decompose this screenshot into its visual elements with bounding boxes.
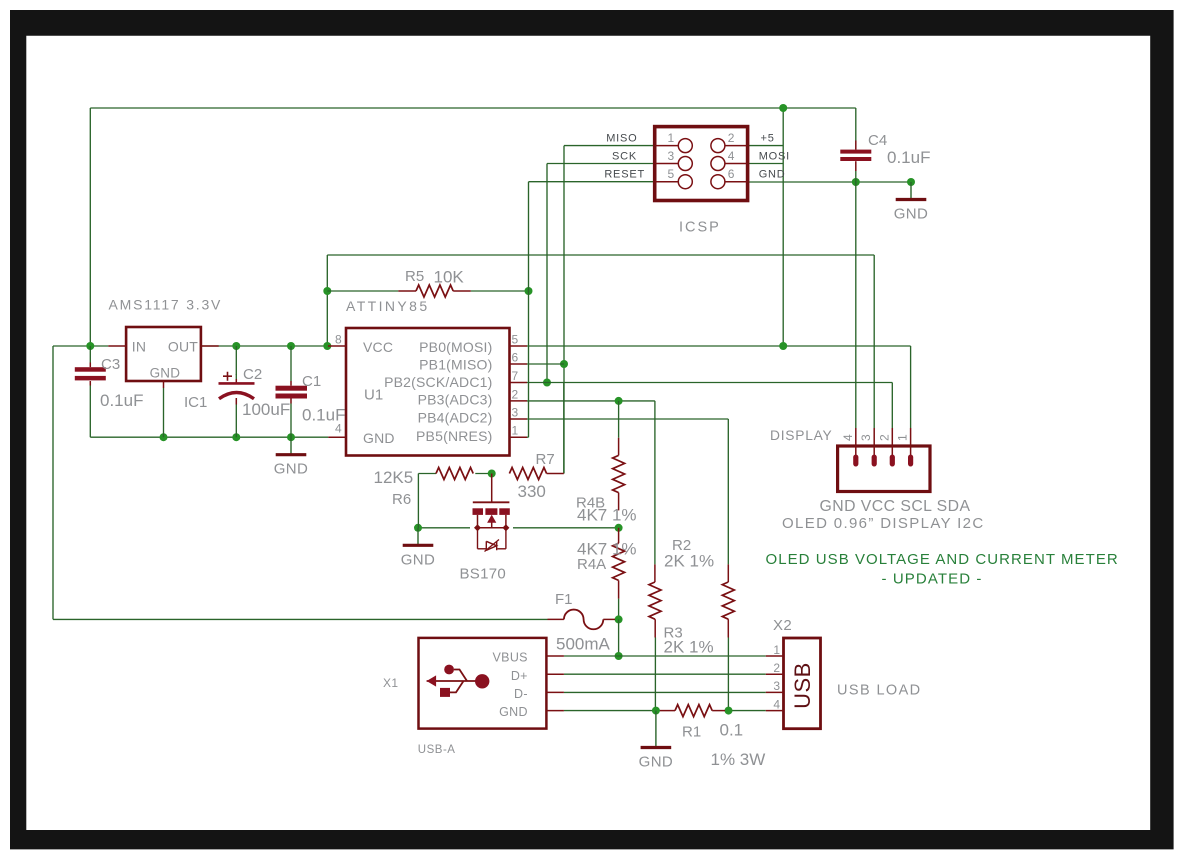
svg-text:MOSI: MOSI: [759, 150, 790, 162]
junction R4A/R4B/drain: [615, 524, 623, 532]
X1 USB logo: [427, 665, 490, 697]
IC1 pin IN stub: [108, 345, 126, 347]
junction C2 top: [232, 342, 240, 350]
connector X2 USB box: [784, 638, 821, 729]
junction PB3/R4B: [615, 397, 623, 405]
svg-text:12K5: 12K5: [374, 468, 414, 487]
svg-text:GND: GND: [499, 705, 528, 719]
junction SCK/PB2: [543, 379, 551, 387]
wire +5V top horizontal: [90, 107, 856, 109]
svg-text:USB-A: USB-A: [418, 744, 456, 756]
svg-text:100uF: 100uF: [242, 400, 290, 419]
svg-text:GND: GND: [639, 754, 674, 771]
junction fuse/R4A: [615, 615, 623, 623]
svg-text:1% 3W: 1% 3W: [711, 750, 766, 769]
svg-text:GND: GND: [274, 461, 309, 478]
svg-text:R1: R1: [682, 724, 701, 741]
svg-text:PB4(ADC2): PB4(ADC2): [418, 410, 493, 426]
svg-text:D+: D+: [511, 669, 528, 683]
svg-text:USB: USB: [790, 662, 815, 709]
wire BS170 drain row: [513, 527, 619, 529]
resistor R2: [722, 564, 734, 637]
svg-text:MISO: MISO: [606, 132, 637, 144]
wire IN row: [53, 345, 108, 347]
svg-text:1: 1: [896, 434, 910, 441]
wire 3V3 riser left: [326, 255, 328, 346]
svg-text:C2: C2: [243, 366, 262, 383]
svg-text:2: 2: [877, 434, 891, 441]
svg-text:1: 1: [773, 643, 780, 657]
wire PB2 row to SCL: [527, 382, 892, 384]
svg-text:IC1: IC1: [184, 394, 207, 411]
svg-text:6: 6: [728, 167, 735, 181]
svg-text:F1: F1: [555, 591, 573, 608]
svg-text:7: 7: [512, 369, 519, 383]
wire R3 column: [654, 401, 656, 565]
X1 pin stubs: [546, 656, 564, 711]
svg-text:0.1uF: 0.1uF: [100, 391, 143, 410]
resistor R3: [649, 564, 661, 637]
wire PB4 row: [527, 418, 728, 420]
capacitor C1: [276, 346, 308, 437]
svg-text:4K7 1%: 4K7 1%: [577, 506, 637, 525]
wire R6R7 gate row left: [418, 473, 436, 475]
svg-text:8: 8: [335, 333, 342, 347]
wire SCK row: [547, 163, 655, 165]
svg-text:R4A: R4A: [577, 556, 606, 573]
svg-text:1: 1: [668, 131, 675, 145]
svg-text:GND: GND: [150, 366, 181, 381]
DISPLAY pin pads: [853, 428, 913, 467]
wire R2 column: [727, 419, 729, 564]
svg-text:6: 6: [512, 351, 519, 365]
wire PB3 row: [527, 400, 655, 402]
svg-text:C4: C4: [868, 132, 887, 149]
wire R4A bottom: [618, 599, 620, 620]
wire SDA vertical to display pin1: [910, 346, 912, 428]
svg-text:PB3(ADC3): PB3(ADC3): [418, 392, 493, 408]
svg-text:330: 330: [518, 482, 546, 501]
svg-text:X1: X1: [383, 676, 398, 690]
junction PB0 riser: [779, 342, 787, 350]
junction IN/C3: [86, 342, 94, 350]
U1 pin4 stub: [328, 436, 346, 438]
junction 3V3/R5: [323, 287, 331, 295]
wire VCC out row: [201, 345, 328, 347]
svg-text:GND VCC SCL SDA: GND VCC SCL SDA: [820, 498, 971, 515]
svg-text:4: 4: [728, 149, 735, 163]
fuse F1: [548, 610, 616, 630]
U1 pin numbers right: [512, 333, 519, 438]
svg-text:PB0(MOSI): PB0(MOSI): [419, 339, 492, 355]
svg-text:1: 1: [512, 424, 519, 438]
wire R7 right riser: [563, 383, 565, 474]
wire fuse node to VBUS: [618, 619, 620, 656]
U1 pin8 stub: [328, 345, 346, 347]
wire PB0 row to SDA: [527, 345, 911, 347]
junction VBUS row: [615, 652, 623, 660]
svg-text:PB1(MISO): PB1(MISO): [419, 357, 492, 373]
svg-text:RESET: RESET: [604, 168, 645, 180]
IC1 pin OUT stub: [201, 345, 219, 347]
transistor Q1 BS170: [473, 474, 510, 552]
svg-text:OLED 0.96” DISPLAY I2C: OLED 0.96” DISPLAY I2C: [782, 515, 985, 532]
wire VBUS left loop vertical: [52, 346, 54, 619]
wire SCK vertical: [546, 164, 548, 383]
ground under R1: [639, 711, 674, 771]
svg-text:+5: +5: [761, 132, 775, 144]
svg-text:5: 5: [668, 167, 675, 181]
junction gate node: [488, 470, 496, 478]
svg-text:C3: C3: [101, 356, 120, 373]
svg-text:3: 3: [668, 149, 675, 163]
junction GND symbol right: [907, 178, 915, 186]
svg-text:500mA: 500mA: [556, 634, 611, 653]
junction C1 top: [287, 342, 295, 350]
svg-text:4: 4: [773, 697, 780, 711]
wire 3V3 vertical to display pin3: [873, 255, 875, 428]
svg-text:USB LOAD: USB LOAD: [837, 683, 922, 699]
svg-text:D-: D-: [514, 687, 528, 701]
ground under C1: [274, 437, 309, 478]
svg-text:0.1uF: 0.1uF: [887, 148, 930, 167]
wire D+ row: [564, 673, 766, 675]
wire +5 stub ICSP: [748, 145, 784, 147]
junction shunt left: [652, 707, 660, 715]
wire R6 left riser: [417, 474, 419, 528]
svg-text:GND: GND: [759, 168, 786, 180]
junction C2 bottom: [232, 433, 240, 441]
wire GND row bottom left: [564, 710, 660, 712]
svg-text:OUT: OUT: [168, 338, 198, 354]
svg-text:- UPDATED -: - UPDATED -: [882, 571, 983, 588]
svg-text:SCK: SCK: [612, 150, 637, 162]
wire MISO row: [564, 145, 655, 147]
svg-text:4: 4: [335, 422, 342, 436]
voltage regulator IC1 AMS1117 box: [126, 327, 201, 381]
junction BS170 gnd: [414, 524, 422, 532]
svg-text:ICSP: ICSP: [679, 220, 721, 236]
wire GND row bottom right: [725, 710, 766, 712]
wire PB1 row: [527, 363, 564, 365]
U1 right pin stubs: [510, 346, 528, 437]
svg-text:GND: GND: [363, 430, 395, 446]
junction VCC pin8: [323, 342, 331, 350]
svg-text:X2: X2: [773, 617, 792, 634]
svg-text:2: 2: [512, 387, 519, 401]
svg-text:10K: 10K: [434, 267, 465, 286]
capacitor C2 polarized: [219, 346, 255, 437]
svg-text:U1: U1: [364, 387, 383, 404]
svg-text:C1: C1: [302, 373, 321, 390]
wire +5V left vertical: [89, 108, 91, 346]
svg-text:OLED USB VOLTAGE AND CURRENT M: OLED USB VOLTAGE AND CURRENT METER: [766, 551, 1119, 568]
header ICSP box: [655, 127, 748, 201]
resistor R6: [436, 468, 473, 480]
ground under R6: [401, 528, 436, 569]
wire RESET vertical: [528, 182, 530, 438]
junction R5/RESET: [525, 287, 533, 295]
wire R7 to riser: [547, 473, 564, 475]
svg-text:DISPLAY: DISPLAY: [770, 428, 833, 443]
svg-text:2: 2: [773, 661, 780, 675]
wire VBUS left loop horizontal to fuse: [53, 618, 548, 620]
junction C1 bottom: [287, 433, 295, 441]
X2 pin stubs: [766, 656, 784, 711]
connector DISPLAY box: [838, 446, 930, 492]
wire BS170 source row: [418, 527, 470, 529]
microcontroller U1 ATTINY85 box: [346, 328, 510, 456]
svg-text:AMS1117 3.3V: AMS1117 3.3V: [109, 297, 223, 313]
wire +5V ICSP riser: [782, 108, 784, 346]
resistor R4B: [613, 438, 625, 511]
resistor R1: [660, 705, 725, 717]
capacitor C4: [840, 108, 871, 182]
wire VBUS row X1 to X2: [564, 655, 766, 657]
junction MISO/PB1: [560, 360, 568, 368]
svg-text:5: 5: [512, 333, 519, 347]
resistor R7: [509, 468, 546, 480]
svg-text:0.1: 0.1: [720, 721, 744, 740]
junction +5V top: [779, 104, 787, 112]
svg-text:3: 3: [773, 679, 780, 693]
svg-text:3: 3: [512, 406, 519, 420]
resistor R5: [398, 285, 471, 297]
junction shunt right: [725, 707, 733, 715]
wire 3V3 distribution row: [327, 254, 874, 256]
wire GND row right: [748, 181, 911, 183]
svg-text:R5: R5: [405, 268, 424, 285]
capacitor C3: [75, 346, 106, 437]
wire D- row: [564, 691, 766, 693]
svg-text:PB5(NRES): PB5(NRES): [416, 428, 492, 444]
svg-text:VBUS: VBUS: [493, 650, 528, 664]
svg-text:2K 1%: 2K 1%: [664, 637, 714, 656]
IC1 pin GND stub: [163, 381, 165, 388]
wire MISO vertical: [563, 146, 565, 474]
wire PB5 stub: [527, 436, 529, 438]
wire GND vertical to display pin4: [855, 182, 857, 428]
svg-text:IN: IN: [132, 338, 146, 354]
svg-text:GND: GND: [894, 206, 929, 223]
wire R4 column upper: [618, 401, 620, 438]
resistor R4A: [613, 528, 625, 599]
wire RESET row: [529, 181, 656, 183]
svg-text:VCC: VCC: [363, 339, 393, 355]
svg-text:ATTINY85: ATTINY85: [346, 298, 430, 314]
ICSP pin circles: [655, 139, 748, 189]
wire R5 row: [327, 290, 398, 292]
wire GND rail: [90, 436, 328, 438]
wire MOSI stub ICSP: [748, 163, 784, 165]
wire gate node row: [475, 473, 491, 475]
svg-text:R7: R7: [536, 451, 555, 468]
svg-text:BS170: BS170: [460, 565, 507, 582]
junction AMS GND: [160, 433, 168, 441]
wire SCL vertical to display pin2: [891, 383, 893, 429]
svg-text:2K 1%: 2K 1%: [664, 551, 714, 570]
svg-text:PB2(SCK/ADC1): PB2(SCK/ADC1): [384, 374, 492, 390]
svg-text:4: 4: [841, 434, 855, 441]
svg-text:2: 2: [728, 131, 735, 145]
svg-text:GND: GND: [401, 551, 436, 568]
svg-text:R6: R6: [392, 491, 411, 508]
connector X1 USB-A box: [419, 638, 547, 729]
junction C4 bottom: [852, 178, 860, 186]
svg-text:3: 3: [859, 434, 873, 441]
ground right of C4: [894, 182, 929, 223]
